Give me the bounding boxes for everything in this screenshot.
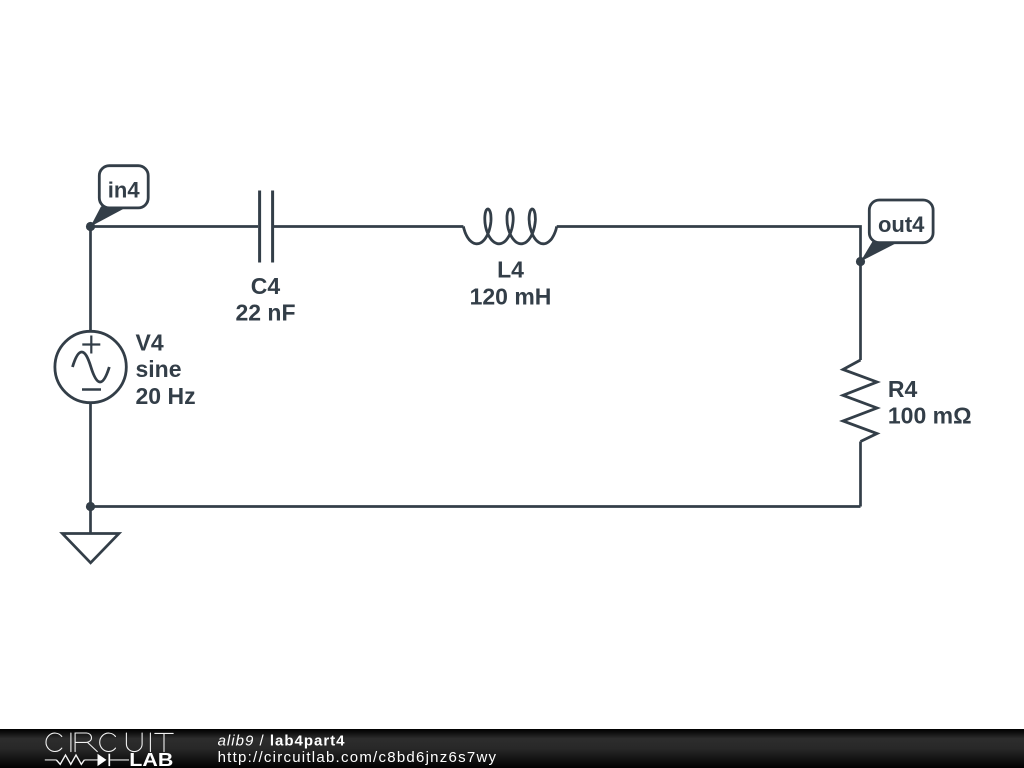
svg-text:22 nF: 22 nF bbox=[235, 300, 295, 326]
svg-text:120 mH: 120 mH bbox=[470, 283, 552, 309]
svg-text:C4: C4 bbox=[251, 273, 281, 299]
svg-text:sine: sine bbox=[136, 356, 182, 382]
svg-text:L4: L4 bbox=[497, 256, 524, 282]
svg-text:LAB: LAB bbox=[129, 750, 173, 768]
svg-text:20 Hz: 20 Hz bbox=[136, 383, 196, 409]
svg-text:alib9 / lab4part4: alib9 / lab4part4 bbox=[218, 732, 346, 749]
svg-text:V4: V4 bbox=[136, 329, 164, 355]
svg-text:100 mΩ: 100 mΩ bbox=[888, 403, 972, 429]
svg-text:R4: R4 bbox=[888, 376, 918, 402]
svg-text:in4: in4 bbox=[108, 178, 141, 203]
svg-text:out4: out4 bbox=[878, 212, 925, 237]
svg-text:http://circuitlab.com/c8bd6jnz: http://circuitlab.com/c8bd6jnz6s7wy bbox=[218, 749, 498, 766]
